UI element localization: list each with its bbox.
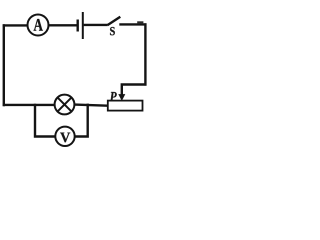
- wire: top segment ammeter to battery: [49, 24, 77, 26]
- voltmeter V: [55, 127, 74, 146]
- wire: top segment to ammeter: [3, 24, 28, 26]
- wire: right vertical: [144, 23, 146, 85]
- wire: top segment battery to switch: [84, 24, 108, 26]
- wire: jog to rheostat slider: [122, 85, 147, 95]
- wire: voltmeter branch right: [75, 104, 88, 137]
- wire: bottom segment left to lamp: [3, 104, 55, 106]
- wire: voltmeter branch left: [35, 104, 55, 137]
- rheostat P: [108, 92, 143, 111]
- wire: bottom segment lamp to rheostat: [75, 105, 108, 106]
- wire: left vertical: [3, 24, 5, 106]
- ammeter A: [28, 15, 49, 36]
- wire: tick on top wire near right corner: [137, 21, 143, 24]
- battery: [78, 12, 83, 39]
- switch S: [108, 17, 121, 36]
- lamp: [55, 95, 75, 115]
- wire: top segment switch to right corner: [119, 23, 146, 25]
